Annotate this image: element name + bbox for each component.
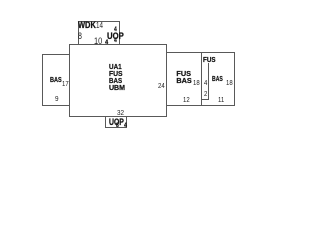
divider wall between FUS/BAS and right BAS	[201, 52, 202, 105]
dim 11 (right section bottom)	[218, 96, 224, 104]
bottom porch UOP: left edge	[105, 116, 106, 128]
label BAS (middle section)	[176, 77, 191, 84]
left basement: top edge	[42, 54, 69, 55]
label FUS (right section top)	[203, 56, 216, 63]
right section: top edge	[166, 52, 235, 53]
dim 4 (top porch, left on line)	[105, 40, 108, 46]
main building: bottom edge	[69, 116, 167, 117]
main building: top edge	[69, 44, 167, 45]
porch label UOP (top)	[107, 32, 124, 41]
dim 10 (WDK bottom side)	[94, 37, 102, 46]
dim 18 (middle right side)	[193, 79, 200, 87]
left basement: left edge	[42, 54, 43, 106]
dim 4 (jog depth)	[204, 79, 207, 87]
dim 14 (WDK width)	[96, 22, 103, 30]
label FUS (middle section)	[176, 70, 191, 77]
dim 4 (bottom porch, right corner)	[124, 123, 127, 129]
wood deck WDK: top edge	[78, 21, 120, 22]
bottom porch UOP: bottom edge	[105, 127, 127, 128]
jog tick	[201, 99, 209, 100]
bottom porch UOP: right edge	[126, 116, 127, 128]
dim 24 (main right side)	[158, 82, 165, 90]
label BAS (left)	[50, 76, 62, 83]
label BAS (main)	[109, 77, 122, 84]
main building: left edge	[69, 44, 70, 117]
label UOP (bottom porch)	[109, 118, 124, 127]
wood deck WDK: left edge	[78, 21, 79, 44]
dim 8 (WDK left side)	[78, 32, 82, 41]
main building: right edge	[166, 44, 167, 117]
right section: bottom edge	[166, 105, 235, 106]
dim 4 (top porch, above)	[114, 27, 117, 33]
label BAS (right section)	[212, 75, 223, 82]
label UBM	[109, 84, 125, 91]
dim 2 (jog width)	[204, 90, 207, 98]
label UA1	[109, 63, 122, 70]
dim 18 (right section right side)	[226, 79, 233, 87]
dim 4 (top porch, below)	[114, 38, 117, 44]
label WDK	[78, 21, 96, 30]
wood deck WDK: right edge	[119, 21, 120, 44]
dim 12 (middle bottom)	[183, 96, 190, 104]
left basement: bottom edge	[42, 105, 69, 106]
dim 9 (left box bottom)	[55, 95, 59, 103]
dim 32 (main bottom side)	[117, 109, 124, 117]
dim 17 (left box right side)	[62, 80, 69, 88]
label FUS (main)	[109, 70, 123, 77]
interior jog wall	[208, 63, 209, 99]
dim 8 (bottom porch, under O)	[116, 123, 119, 129]
right section: right edge	[234, 52, 235, 106]
